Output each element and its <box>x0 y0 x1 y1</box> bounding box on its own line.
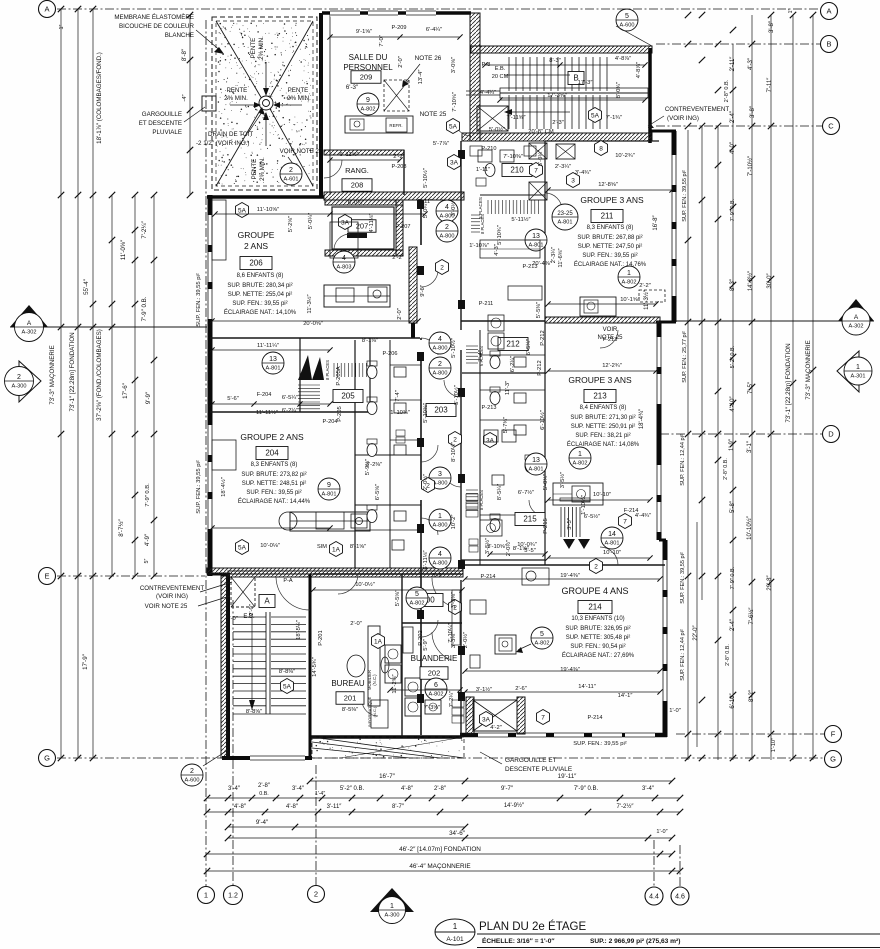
svg-text:2% MIN.: 2% MIN. <box>258 36 265 60</box>
svg-text:1A: 1A <box>332 546 341 553</box>
gargouille box <box>202 96 216 111</box>
ref circle 4/A-800 <box>429 332 451 354</box>
svg-text:11'-3½″: 11'-3½″ <box>306 294 313 313</box>
section marker 1/A-301 right <box>837 351 859 392</box>
top block 209 left wall <box>319 13 323 197</box>
svg-text:A-803: A-803 <box>337 264 352 270</box>
svg-text:A-802: A-802 <box>573 460 588 466</box>
svg-text:PLAN DU 2e ÉTAGE: PLAN DU 2e ÉTAGE <box>479 920 586 933</box>
svg-text:A-301: A-301 <box>851 373 866 379</box>
svg-text:P-202: P-202 <box>418 630 424 645</box>
svg-text:9: 9 <box>327 482 331 489</box>
svg-text:SUP. NETTE: 255,04 pi²: SUP. NETTE: 255,04 pi² <box>228 292 293 298</box>
svg-text:6: 6 <box>434 682 438 689</box>
svg-text:209: 209 <box>360 73 373 82</box>
cubbies comb corridor a0 <box>471 215 480 232</box>
room 205 walls <box>210 411 370 413</box>
hex 5A top206 <box>236 203 249 218</box>
svg-text:SUP. NETTE: 248,51 pi²: SUP. NETTE: 248,51 pi² <box>242 481 307 487</box>
svg-text:7'-11″: 7'-11″ <box>767 77 773 93</box>
svg-text:PENTE: PENTE <box>288 87 309 94</box>
svg-text:6'-10″: 6'-10″ <box>730 692 736 708</box>
closet boxes room 204 <box>212 440 236 470</box>
svg-text:205: 205 <box>341 392 355 401</box>
canopy roof bottom stipple <box>316 738 463 757</box>
svg-text:P-214: P-214 <box>588 715 603 721</box>
svg-text:1A: 1A <box>374 638 383 645</box>
svg-text:6'-10½″: 6'-10½″ <box>539 410 546 430</box>
svg-text:SUP. BRUTE: 267,88 pi²: SUP. BRUTE: 267,88 pi² <box>577 235 642 241</box>
dim line 12-8 room 211 <box>548 189 672 191</box>
left wall windows <box>207 215 214 245</box>
svg-text:14: 14 <box>608 531 616 538</box>
bottom dimension chain lines <box>310 780 465 782</box>
stair block left wall <box>226 574 230 760</box>
svg-text:SUP. FEN.: 39,55 pi²: SUP. FEN.: 39,55 pi² <box>680 552 686 604</box>
svg-text:2% MIN.: 2% MIN. <box>224 95 248 102</box>
svg-text:16'-8″: 16'-8″ <box>653 214 659 230</box>
svg-text:SUP. NETTE: 305,48 pi²: SUP. NETTE: 305,48 pi² <box>566 635 631 641</box>
svg-text:A-801: A-801 <box>322 491 337 497</box>
svg-text:SUP. FEN.: 39,55 pi²: SUP. FEN.: 39,55 pi² <box>196 273 202 326</box>
svg-text:A-802: A-802 <box>535 640 550 646</box>
svg-text:A-800: A-800 <box>433 345 448 351</box>
svg-text:RANG.: RANG. <box>345 166 369 175</box>
svg-text:5'-2″ 0.B.: 5'-2″ 0.B. <box>730 345 736 368</box>
svg-text:7'-10⅝″: 7'-10⅝″ <box>452 92 458 112</box>
svg-text:14'-5¾″: 14'-5¾″ <box>312 657 318 677</box>
ref circle 5/A-802 room214 <box>531 627 553 649</box>
ref circle 1/A-800 <box>429 509 451 531</box>
svg-text:SUP. FEN.: 90,54 pi²: SUP. FEN.: 90,54 pi² <box>570 644 625 650</box>
svg-text:8'-3″: 8'-3″ <box>730 278 736 291</box>
svg-text:A-300: A-300 <box>385 912 400 918</box>
dim line 10-10 room 214t <box>548 557 650 559</box>
svg-text:7'-5″: 7'-5″ <box>748 381 754 394</box>
svg-text:10'-0⅛″: 10'-0⅛″ <box>260 543 280 549</box>
right dimension chain lines <box>687 130 689 760</box>
svg-text:A-600: A-600 <box>620 22 635 28</box>
svg-text:7: 7 <box>623 518 627 525</box>
svg-text:SUP. NETTE: 250,91 pi²: SUP. NETTE: 250,91 pi² <box>571 424 636 430</box>
grid line row A <box>57 8 820 10</box>
svg-text:4'-3″: 4'-3″ <box>494 244 500 256</box>
kitchen 209 counter <box>345 116 413 133</box>
stair mid-right treads (215) <box>560 507 562 537</box>
ref circle 6/A-802 <box>425 678 447 700</box>
svg-text:7'-4″: 7'-4″ <box>395 390 401 402</box>
lower right wall <box>659 539 666 542</box>
room 214 misc fixtures <box>470 600 486 614</box>
svg-text:5'-10½″: 5'-10½″ <box>450 338 457 358</box>
svg-text:20'-8″ CM: 20'-8″ CM <box>528 129 554 135</box>
kitchen room 204 counter <box>290 512 370 531</box>
svg-text:7'-10¼″: 7'-10¼″ <box>448 623 454 643</box>
hex 8 <box>595 141 608 156</box>
svg-text:A-800: A-800 <box>433 560 448 566</box>
svg-text:2'-0½″: 2'-0½″ <box>462 632 469 648</box>
roof drain circle <box>259 96 273 110</box>
svg-text:14'-1″: 14'-1″ <box>618 693 633 699</box>
ref circle 9/A-801 <box>318 478 340 500</box>
svg-text:8'-1⅝″: 8'-1⅝″ <box>350 544 366 550</box>
svg-text:20'-4⅜″: 20'-4⅜″ <box>532 261 552 267</box>
svg-text:19'-4⅜″: 19'-4⅜″ <box>560 667 580 673</box>
bathroom partitions central <box>390 364 421 366</box>
svg-text:P-212: P-212 <box>540 330 546 345</box>
ref circle 23-25/A-801 <box>552 204 578 230</box>
svg-text:NOTE 26: NOTE 26 <box>415 55 442 62</box>
svg-text:46'-2″ [14.07m] FONDATION: 46'-2″ [14.07m] FONDATION <box>399 846 481 853</box>
vanity room 215 <box>480 520 502 536</box>
section line A-302 right <box>660 320 874 322</box>
svg-text:MEMBRANE ÉLASTOMÈRE: MEMBRANE ÉLASTOMÈRE <box>114 14 194 21</box>
room 211 south wall <box>545 317 660 323</box>
svg-text:5'-9⅜″: 5'-9⅜″ <box>365 459 371 475</box>
counter room 211 <box>580 297 616 316</box>
svg-text:6 PLACES: 6 PLACES <box>479 346 484 366</box>
ref circle 4/A-803 <box>333 251 355 273</box>
svg-text:2'-4″: 2'-4″ <box>730 618 736 631</box>
svg-text:37'-2⅝″ (FOND./COLOMBAGES): 37'-2⅝″ (FOND./COLOMBAGES) <box>96 329 103 421</box>
roof hip lines X <box>216 21 262 99</box>
svg-text:SUP. FEN.: 39,55 pi²: SUP. FEN.: 39,55 pi² <box>573 741 626 747</box>
svg-text:8'-8⅝″: 8'-8⅝″ <box>246 709 262 715</box>
svg-text:7'-9″ 0.B.: 7'-9″ 0.B. <box>730 566 736 589</box>
svg-text:22'-0″: 22'-0″ <box>693 624 699 640</box>
svg-text:P-201: P-201 <box>318 630 324 645</box>
svg-text:1'-11″: 1'-11″ <box>476 167 490 173</box>
room 210 <box>502 164 532 177</box>
svg-text:10'-2¾″: 10'-2¾″ <box>615 153 635 159</box>
svg-text:5A: 5A <box>449 123 458 130</box>
grid bubble F right <box>825 726 842 743</box>
svg-text:F-213: F-213 <box>603 337 618 343</box>
grid bubble G right <box>825 751 842 768</box>
svg-text:1: 1 <box>453 922 458 931</box>
stair B arrows <box>505 74 570 76</box>
svg-text:4: 4 <box>438 551 442 558</box>
svg-text:ET DESCENTE: ET DESCENTE <box>139 120 182 127</box>
dim line room204 b <box>212 403 330 405</box>
hex 5A <box>447 119 460 134</box>
right dimension ticks <box>685 12 691 18</box>
svg-text:ÉCHELLE: 3/16″ = 1'-0″: ÉCHELLE: 3/16″ = 1'-0″ <box>482 936 555 945</box>
room 204 bottom wall <box>207 568 463 574</box>
grid bubble E left <box>39 568 56 585</box>
svg-text:A: A <box>826 7 831 16</box>
svg-text:203: 203 <box>434 406 448 415</box>
stair block door arc <box>276 577 310 610</box>
svg-text:8,3 ENFANTS (8): 8,3 ENFANTS (8) <box>587 225 634 231</box>
svg-text:211: 211 <box>601 212 614 221</box>
svg-text:SUP. BRUTE: 326,95 pi²: SUP. BRUTE: 326,95 pi² <box>565 626 630 632</box>
svg-text:GARGOUILLE ET: GARGOUILLE ET <box>505 757 557 764</box>
svg-text:2'-2″: 2'-2″ <box>639 283 651 289</box>
svg-text:204: 204 <box>265 449 279 458</box>
svg-text:5'-8″: 5'-8″ <box>730 500 736 513</box>
grid line col 1.2 <box>232 600 234 886</box>
svg-text:7: 7 <box>534 167 538 174</box>
svg-text:2'-2″: 2'-2″ <box>393 154 405 160</box>
cubbies comb corridor b <box>466 490 478 510</box>
svg-text:5'-0½″: 5'-0½″ <box>489 126 505 133</box>
svg-text:202: 202 <box>428 669 441 678</box>
bottom wall mid section <box>310 735 462 739</box>
room 214 north wall <box>461 559 545 561</box>
svg-text:3: 3 <box>571 177 575 184</box>
svg-text:7'-9″ 0.B.: 7'-9″ 0.B. <box>730 198 736 221</box>
svg-text:11'-11¼″: 11'-11¼″ <box>257 343 279 349</box>
room 207 walls <box>325 200 403 205</box>
svg-text:A-800: A-800 <box>433 370 448 376</box>
svg-text:GROUPE 3 ANS: GROUPE 3 ANS <box>580 195 644 205</box>
svg-text:2'-8″ 0.B.: 2'-8″ 0.B. <box>723 458 729 480</box>
vanity room 214 <box>495 635 516 654</box>
bath fixtures 210 zone <box>485 164 495 177</box>
svg-text:C: C <box>828 122 834 131</box>
svg-text:A-800: A-800 <box>440 233 455 239</box>
svg-text:2'-8″ 0.B.: 2'-8″ 0.B. <box>724 79 730 102</box>
svg-text:213: 213 <box>593 392 607 401</box>
svg-text:10'-0¾″: 10'-0¾″ <box>517 542 537 548</box>
svg-text:9'-9″: 9'-9″ <box>145 391 152 404</box>
svg-text:11'-11½″: 11'-11½″ <box>256 409 278 416</box>
dim line 19-4 room 214b <box>465 670 660 672</box>
svg-text:1'-10⅞″: 1'-10⅞″ <box>469 243 489 249</box>
svg-text:SUP. FEN.: 38,21 pi²: SUP. FEN.: 38,21 pi² <box>575 433 630 439</box>
room 203 <box>426 404 456 417</box>
svg-text:ÉCLAIRAGE NAT.: 14,76%: ÉCLAIRAGE NAT.: 14,76% <box>574 261 647 268</box>
svg-text:P-209: P-209 <box>392 25 407 31</box>
ref circle 4/A-800 top <box>436 200 458 222</box>
grid bubble 4.4 bottom <box>645 887 663 905</box>
svg-text:4: 4 <box>438 336 442 343</box>
hex 2 mid2 <box>422 478 435 493</box>
svg-text:2'-0½″: 2'-0½″ <box>422 474 429 490</box>
svg-text:GARGOUILLE: GARGOUILLE <box>142 111 182 118</box>
svg-text:5'-10½″: 5'-10½″ <box>453 385 460 405</box>
svg-text:4'-8″: 4'-8″ <box>286 804 299 810</box>
svg-text:18'-1⅞″ (COLOMBAGES/FOND.): 18'-1⅞″ (COLOMBAGES/FOND.) <box>96 52 103 144</box>
grid line row D <box>660 433 822 435</box>
DOU boxes 215 <box>469 539 478 545</box>
svg-text:2: 2 <box>445 224 449 231</box>
roof deck dashed outline <box>212 17 317 190</box>
svg-text:5'-7¾″: 5'-7¾″ <box>503 417 509 433</box>
svg-text:10'-2″: 10'-2″ <box>451 515 457 530</box>
svg-text:A-802: A-802 <box>622 279 637 285</box>
svg-text:2'-0″: 2'-0″ <box>397 308 403 320</box>
grid bubble C right <box>823 118 840 135</box>
grid bubble A left <box>39 1 56 18</box>
kitchenette room 213 <box>553 483 603 505</box>
svg-text:2'-0″: 2'-0″ <box>226 616 238 622</box>
svg-text:29'-8″: 29'-8″ <box>767 574 773 590</box>
svg-text:3'-0½″: 3'-0½″ <box>450 200 457 216</box>
svg-text:4.6: 4.6 <box>675 894 685 901</box>
upper right wing right wall <box>672 131 677 322</box>
svg-text:BUANDERIE: BUANDERIE <box>411 654 458 663</box>
svg-text:14'-9½″: 14'-9½″ <box>504 802 525 809</box>
svg-text:9'-4″: 9'-4″ <box>256 819 269 826</box>
cubbies comb room 210 <box>488 200 538 214</box>
dim line 209 top <box>330 36 460 38</box>
top block top wall <box>322 11 471 15</box>
svg-text:17'-3″: 17'-3″ <box>578 80 593 86</box>
svg-text:DRAIN DE TOIT: DRAIN DE TOIT <box>208 131 253 138</box>
svg-text:E: E <box>44 572 49 581</box>
svg-text:210: 210 <box>510 166 524 175</box>
svg-text:2'-0″: 2'-0″ <box>398 56 404 68</box>
svg-text:ÉCLAIRAGE NAT.: 27,69%: ÉCLAIRAGE NAT.: 27,69% <box>562 652 635 659</box>
svg-text:SUP. BRUTE: 271,30 pi²: SUP. BRUTE: 271,30 pi² <box>570 415 635 421</box>
svg-text:1'-0″: 1'-0″ <box>669 708 681 714</box>
svg-text:4'-3″: 4'-3″ <box>748 57 754 70</box>
svg-text:5'-5″: 5'-5″ <box>524 548 536 554</box>
outer wall left (room 206/204) <box>208 195 213 576</box>
svg-text:A-601: A-601 <box>284 176 299 182</box>
bureau/buanderie walls <box>309 574 312 758</box>
svg-text:2'-2″: 2'-2″ <box>392 255 404 261</box>
hex 7 right <box>619 514 632 529</box>
svg-text:5A: 5A <box>591 112 600 119</box>
svg-text:A: A <box>44 5 49 14</box>
room 211 west bath wall <box>544 141 546 330</box>
svg-text:SIM: SIM <box>317 544 327 550</box>
svg-text:1: 1 <box>578 451 582 458</box>
svg-text:2'-3″: 2'-3″ <box>552 120 564 126</box>
svg-text:3A: 3A <box>482 716 491 723</box>
svg-text:VOIR: VOIR <box>603 327 618 333</box>
grid bubble 4.6 bottom <box>671 887 689 905</box>
closet X room 209 <box>384 80 409 111</box>
svg-text:8'-5⅜″: 8'-5⅜″ <box>342 707 358 713</box>
hex 3A <box>448 155 461 170</box>
svg-text:A-300: A-300 <box>12 383 27 389</box>
svg-text:4'-9″: 4'-9″ <box>144 533 151 546</box>
ref circle 2/A-800 top <box>436 220 458 242</box>
svg-text:3'-8″: 3'-8″ <box>750 105 756 118</box>
svg-text:(N.C.): (N.C.) <box>372 674 377 686</box>
svg-text:17'-9″: 17'-9″ <box>82 653 89 670</box>
svg-text:212: 212 <box>506 340 520 349</box>
dim line 19-4 room 214 <box>465 578 660 580</box>
svg-text:1: 1 <box>856 364 860 371</box>
svg-text:5'-2″ 0.B.: 5'-2″ 0.B. <box>340 786 365 792</box>
svg-text:5'-0¼″: 5'-0¼″ <box>538 150 544 166</box>
svg-text:4.4: 4.4 <box>649 894 659 901</box>
svg-text:19'-11″: 19'-11″ <box>558 773 578 780</box>
svg-text:11'-6⅝″: 11'-6⅝″ <box>558 248 564 267</box>
svg-text:A-600: A-600 <box>185 777 200 783</box>
sinks 210 zone <box>478 150 492 162</box>
svg-text:5'-2⅝″: 5'-2⅝″ <box>288 216 294 232</box>
svg-text:A-801: A-801 <box>605 540 620 546</box>
svg-text:4'-4¼″: 4'-4¼″ <box>480 90 496 96</box>
svg-text:5'-9″: 5'-9″ <box>432 573 444 579</box>
svg-text:2% MIN.: 2% MIN. <box>259 157 266 181</box>
svg-text:3A: 3A <box>341 219 350 226</box>
laundry machines buanderie <box>405 678 421 696</box>
svg-text:-4″: -4″ <box>182 94 188 101</box>
svg-text:4'-2″: 4'-2″ <box>490 725 502 731</box>
hex 2 corridor206 <box>436 260 449 275</box>
svg-text:5A: 5A <box>238 207 247 214</box>
small rects DOU corridor <box>466 494 478 501</box>
svg-text:3'-11″: 3'-11″ <box>327 804 343 810</box>
svg-text:9'-6″: 9'-6″ <box>420 285 426 297</box>
ref circle 5/A-802 <box>406 587 428 609</box>
svg-text:A-302: A-302 <box>22 329 37 335</box>
stair block bottom wall <box>222 756 312 760</box>
grid bubble D right <box>823 426 840 443</box>
shelf room 206 left <box>212 200 226 260</box>
svg-text:2'-0″: 2'-0″ <box>350 621 362 627</box>
svg-text:5A: 5A <box>238 544 247 551</box>
svg-text:201: 201 <box>344 694 357 703</box>
svg-text:4'-4¾″: 4'-4¾″ <box>635 513 651 519</box>
svg-text:2: 2 <box>594 563 598 570</box>
svg-text:18'-4¾″: 18'-4¾″ <box>639 408 645 429</box>
svg-text:A-302: A-302 <box>849 323 864 329</box>
svg-text:6'-5⅝″: 6'-5⅝″ <box>375 484 381 500</box>
dim line 14-11 room 214 <box>465 691 660 693</box>
kitchen room 206 counter <box>324 285 390 307</box>
svg-text:7'-1¾″: 7'-1¾″ <box>606 115 622 121</box>
svg-text:3'-1″: 3'-1″ <box>747 440 753 453</box>
svg-text:P-207: P-207 <box>396 224 411 230</box>
svg-text:8'-7″: 8'-7″ <box>392 804 405 810</box>
hex 3A b <box>339 215 352 230</box>
dim line stairs mid <box>500 99 645 101</box>
svg-text:SUP. FEN.: 12,44 pi²: SUP. FEN.: 12,44 pi² <box>680 629 686 681</box>
dashed canopy outline <box>312 737 464 758</box>
svg-text:17'-3⅝″: 17'-3⅝″ <box>547 93 567 99</box>
svg-text:7'-2¼″: 7'-2¼″ <box>141 220 148 238</box>
svg-text:7'-2½″: 7'-2½″ <box>617 803 635 810</box>
svg-text:BICOUCHE DE COULEUR: BICOUCHE DE COULEUR <box>119 23 194 30</box>
stairs B top wall <box>471 46 652 53</box>
svg-text:P-215: P-215 <box>543 518 549 533</box>
svg-text:6'-5¼″: 6'-5¼″ <box>526 339 532 355</box>
svg-text:8,4 ENFANTS (8): 8,4 ENFANTS (8) <box>580 405 627 411</box>
svg-text:73'-1″ [22.28m] FONDATION: 73'-1″ [22.28m] FONDATION <box>69 332 76 411</box>
section marker A/A-302 right <box>838 299 874 321</box>
svg-text:1.2: 1.2 <box>228 893 238 900</box>
cubbies comb room 206 <box>334 363 366 377</box>
svg-text:1'-10″: 1'-10″ <box>771 738 777 752</box>
dim line bureau <box>313 589 462 591</box>
grid line row B <box>656 43 820 45</box>
svg-text:P-A: P-A <box>283 578 293 584</box>
svg-text:46'-4″ MAÇONNERIE: 46'-4″ MAÇONNERIE <box>409 863 470 870</box>
svg-text:10'-1⅝″: 10'-1⅝″ <box>620 297 640 303</box>
svg-text:CONTREVENTEMENT: CONTREVENTEMENT <box>140 585 205 592</box>
ref circle 4/A-800 low <box>429 547 451 569</box>
svg-text:6'-3″: 6'-3″ <box>346 84 359 91</box>
stair bottom-left treads <box>233 616 266 618</box>
bath zone mid walls <box>354 340 356 568</box>
svg-text:8: 8 <box>599 145 603 152</box>
svg-text:ÉCLAIRAGE NAT.: 14,44%: ÉCLAIRAGE NAT.: 14,44% <box>238 498 311 505</box>
hex 3A bath <box>484 433 497 448</box>
svg-text:6'-7½″: 6'-7½″ <box>518 489 534 496</box>
svg-text:E.B.: E.B. <box>495 66 506 72</box>
svg-text:SUP. FEN.: 39,55 pi²: SUP. FEN.: 39,55 pi² <box>196 460 202 513</box>
svg-text:3'-5½″: 3'-5½″ <box>559 472 566 488</box>
svg-text:1'-4″: 1'-4″ <box>315 791 325 797</box>
